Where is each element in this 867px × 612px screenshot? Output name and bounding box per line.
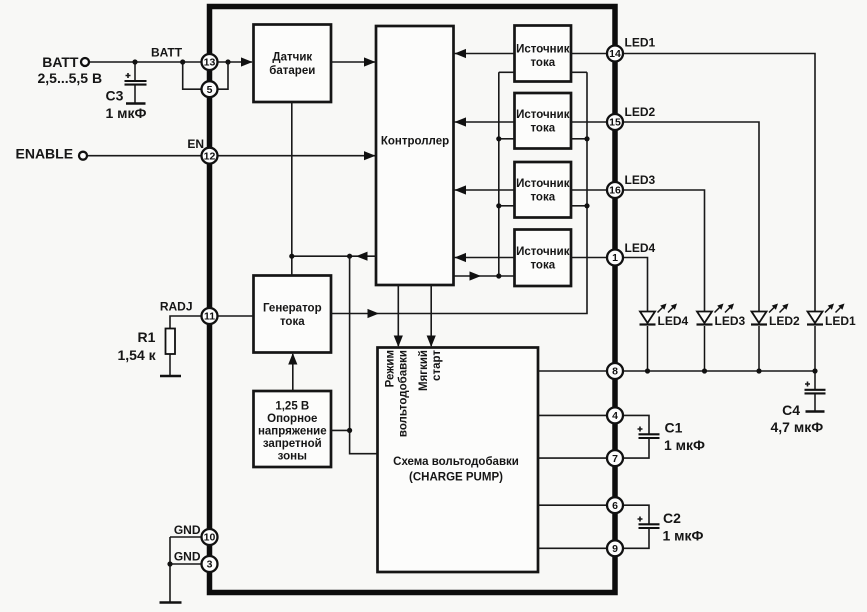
wire top tie left bbox=[499, 71, 515, 73]
wire GND pin3 bbox=[170, 563, 202, 565]
svg-text:напряжение: напряжение bbox=[258, 426, 327, 438]
wire Источник тока 3 to pin16 bbox=[571, 189, 607, 191]
pin 6 bbox=[607, 497, 623, 513]
node BATT/C3 junction bbox=[132, 59, 137, 64]
svg-text:4,7 мкФ: 4,7 мкФ bbox=[771, 419, 824, 435]
terminal ENABLE bbox=[79, 152, 87, 160]
pin 11 bbox=[202, 308, 218, 324]
svg-text:1,25 В: 1,25 В bbox=[275, 401, 309, 413]
label: Режим вольтодобавки (vertical) bbox=[385, 350, 410, 437]
label BATT source bbox=[38, 54, 103, 86]
wire 1,25 В to Генератор тока bbox=[288, 353, 297, 391]
svg-text:Контроллер: Контроллер bbox=[381, 135, 449, 147]
pin 1 bbox=[607, 250, 623, 266]
wire pin15 to LED2 bbox=[623, 122, 759, 311]
wire pin16 to LED3 bbox=[623, 190, 705, 311]
wire stub2 right bbox=[571, 136, 590, 141]
svg-text:R1: R1 bbox=[138, 329, 156, 345]
wire Контроллер to Источник тока 4 lower bbox=[454, 271, 515, 280]
svg-text:1 мкФ: 1 мкФ bbox=[106, 105, 147, 121]
svg-text:BATT: BATT bbox=[42, 54, 79, 70]
label GND pin3 bbox=[174, 550, 201, 564]
wire EN external bbox=[88, 155, 202, 157]
svg-text:1: 1 bbox=[612, 252, 618, 264]
wire left bus bbox=[498, 72, 500, 276]
wire Источник тока 4 to pin1 bbox=[571, 257, 607, 259]
label LED3 pin bbox=[625, 173, 656, 187]
LED LED1 bbox=[807, 304, 856, 372]
block: Источник тока 2 bbox=[515, 93, 572, 149]
wire pin11 to Генератор тока bbox=[218, 315, 254, 317]
svg-text:Источник: Источник bbox=[516, 109, 570, 121]
LED LED3 bbox=[697, 304, 746, 372]
svg-text:LED1: LED1 bbox=[625, 36, 656, 50]
svg-text:RADJ: RADJ bbox=[160, 300, 193, 314]
svg-text:12: 12 bbox=[204, 150, 216, 162]
IC boundary bbox=[210, 7, 616, 593]
svg-text:6: 6 bbox=[612, 500, 618, 512]
wire vertical net to charge pump bbox=[350, 256, 378, 454]
pin 3 bbox=[202, 556, 218, 572]
wire pin5 external loop bbox=[180, 59, 201, 89]
svg-text:C4: C4 bbox=[782, 402, 800, 418]
LED LED2 bbox=[751, 304, 800, 372]
svg-text:Схема вольтодобавки: Схема вольтодобавки bbox=[393, 456, 519, 468]
block: Контроллер U-CTRL bbox=[376, 26, 454, 285]
svg-text:13: 13 bbox=[204, 57, 216, 69]
svg-text:Источник: Источник bbox=[516, 43, 570, 55]
terminal BATT bbox=[81, 58, 89, 66]
svg-text:C2: C2 bbox=[663, 510, 681, 526]
block: 1,25 В опорное напряжение bbox=[254, 391, 332, 467]
capacitor C1 bbox=[623, 415, 660, 458]
wire Источник тока 4 to Контроллер bbox=[454, 253, 515, 262]
svg-text:Датчик: Датчик bbox=[272, 52, 312, 64]
svg-text:тока: тока bbox=[530, 260, 555, 272]
pin 10 bbox=[202, 529, 218, 545]
label R1 bbox=[118, 329, 157, 363]
wire pin14 to LED1 bbox=[623, 54, 815, 312]
wire Источник тока 2 to Контроллер bbox=[454, 117, 515, 126]
wire Источник тока 2 to pin15 bbox=[571, 121, 607, 123]
wire stub3 right bbox=[571, 203, 590, 208]
svg-text:2,5...5,5 В: 2,5...5,5 В bbox=[38, 70, 103, 86]
wire top tie right bbox=[571, 71, 587, 73]
ground R1 bbox=[160, 375, 181, 378]
svg-text:Опорное: Опорное bbox=[267, 413, 317, 425]
capacitor C4 bbox=[805, 371, 826, 411]
svg-text:EN: EN bbox=[187, 137, 204, 151]
svg-text:10: 10 bbox=[204, 532, 216, 544]
block: Источник тока 3 bbox=[515, 162, 572, 218]
wire pin13 to Датчик батареи bbox=[218, 57, 253, 66]
wire 1,25 В output bbox=[331, 428, 352, 433]
svg-text:зоны: зоны bbox=[278, 451, 307, 463]
label ENABLE bbox=[16, 146, 74, 162]
wire Генератор тока output bus bbox=[331, 72, 587, 318]
pin 7 bbox=[607, 450, 623, 466]
capacitor C3 bbox=[125, 62, 147, 103]
svg-text:тока: тока bbox=[530, 57, 555, 69]
svg-text:LED3: LED3 bbox=[625, 173, 656, 187]
svg-text:Генератор: Генератор bbox=[263, 302, 322, 314]
block: Источник тока 1 bbox=[515, 26, 572, 82]
svg-text:14: 14 bbox=[609, 48, 621, 60]
svg-text:тока: тока bbox=[530, 192, 555, 204]
ground C4 bbox=[806, 410, 825, 413]
svg-text:Мягкий: Мягкий bbox=[418, 350, 430, 391]
svg-text:тока: тока bbox=[530, 123, 555, 135]
wire GND pin10 bbox=[170, 536, 202, 538]
svg-text:11: 11 bbox=[204, 311, 215, 323]
svg-text:LED2: LED2 bbox=[769, 314, 800, 328]
pin 5 bbox=[202, 81, 218, 97]
pin 14 bbox=[607, 46, 623, 62]
label LED2 pin bbox=[625, 105, 656, 119]
svg-text:5: 5 bbox=[207, 84, 213, 96]
svg-text:ENABLE: ENABLE bbox=[16, 146, 74, 162]
pin 16 bbox=[607, 182, 623, 198]
capacitor C2 bbox=[623, 505, 660, 548]
svg-text:C1: C1 bbox=[665, 420, 683, 436]
svg-text:16: 16 bbox=[609, 185, 621, 197]
block: Источник тока 4 bbox=[515, 230, 572, 287]
wire charge pump to pin4 bbox=[538, 414, 607, 416]
svg-text:1 мкФ: 1 мкФ bbox=[664, 437, 705, 453]
pin 13 bbox=[202, 54, 218, 70]
wire Датчик батареи to Контроллер bbox=[331, 57, 376, 66]
svg-text:9: 9 bbox=[612, 543, 618, 555]
block: Схема вольтодобавки (CHARGE PUMP) bbox=[378, 348, 539, 573]
label LED4 pin bbox=[625, 241, 656, 255]
wire EN internal to Контроллер bbox=[218, 151, 376, 160]
wire GND vertical bbox=[167, 537, 172, 602]
pin 9 bbox=[607, 540, 623, 556]
label GND pin10 bbox=[174, 523, 201, 537]
svg-text:LED4: LED4 bbox=[658, 314, 689, 328]
wire stub2 left bbox=[496, 136, 514, 141]
wire charge pump to pin7 bbox=[538, 457, 607, 459]
svg-text:вольтодобавки: вольтодобавки bbox=[398, 350, 410, 437]
wire Контроллер left output bbox=[289, 252, 376, 261]
label: Мягкий старт (vertical) bbox=[418, 350, 443, 391]
svg-text:старт: старт bbox=[431, 350, 443, 381]
wire Датчик батареи down to Генератор тока bbox=[291, 102, 293, 276]
svg-text:батареи: батареи bbox=[269, 65, 315, 77]
pin 15 bbox=[607, 114, 623, 130]
svg-text:GND: GND bbox=[174, 550, 201, 564]
wire charge pump to pin6 bbox=[538, 504, 607, 506]
ground C3 bbox=[126, 102, 146, 105]
svg-text:Источник: Источник bbox=[516, 246, 570, 258]
svg-text:запретной: запретной bbox=[263, 438, 322, 450]
svg-text:(CHARGE PUMP): (CHARGE PUMP) bbox=[409, 472, 503, 484]
label RADJ net bbox=[160, 300, 193, 314]
wire charge pump to pin9 bbox=[538, 547, 607, 549]
block: Датчик батареи bbox=[254, 25, 332, 103]
wire pin8 common rail bbox=[623, 368, 818, 373]
label C2 bbox=[663, 510, 704, 544]
ground GND bbox=[160, 601, 182, 604]
wire pin5 internal loop bbox=[218, 62, 229, 89]
svg-text:15: 15 bbox=[609, 117, 621, 129]
LED LED4 bbox=[640, 304, 689, 372]
svg-text:GND: GND bbox=[174, 523, 201, 537]
resistor R1 bbox=[166, 329, 176, 376]
wire BATT external bbox=[90, 61, 202, 63]
pin 4 bbox=[607, 407, 623, 423]
block: Генератор тока bbox=[254, 276, 332, 353]
wire Источник тока 1 to Контроллер bbox=[454, 49, 515, 58]
wire Контроллер to charge pump (Мягкий старт) bbox=[427, 285, 436, 347]
svg-text:LED3: LED3 bbox=[715, 314, 746, 328]
svg-text:тока: тока bbox=[280, 316, 305, 328]
svg-text:LED2: LED2 bbox=[625, 105, 656, 119]
label EN net bbox=[187, 137, 204, 151]
label LED1 pin bbox=[625, 36, 656, 50]
pin 8 bbox=[607, 363, 623, 379]
svg-text:1,54 к: 1,54 к bbox=[118, 347, 157, 363]
svg-text:Источник: Источник bbox=[516, 178, 570, 190]
svg-text:Режим: Режим bbox=[385, 350, 397, 387]
wire RADJ external bbox=[170, 316, 202, 329]
svg-text:C3: C3 bbox=[106, 88, 124, 104]
label C3 bbox=[106, 88, 147, 122]
svg-text:8: 8 bbox=[612, 366, 618, 378]
svg-text:7: 7 bbox=[612, 453, 618, 465]
wire charge pump to pin8 bbox=[538, 370, 607, 372]
wire Источник тока 1 to pin14 bbox=[571, 53, 607, 55]
pin 12 bbox=[202, 148, 218, 164]
label C4 bbox=[771, 402, 824, 435]
label C1 bbox=[664, 420, 705, 454]
svg-text:3: 3 bbox=[207, 559, 213, 571]
svg-text:LED1: LED1 bbox=[825, 314, 856, 328]
wire stub3 left bbox=[496, 203, 514, 208]
svg-text:BATT: BATT bbox=[151, 46, 183, 60]
svg-text:LED4: LED4 bbox=[625, 241, 656, 255]
svg-text:1 мкФ: 1 мкФ bbox=[663, 528, 704, 544]
wire Источник тока 3 to Контроллер bbox=[454, 185, 515, 194]
label BATT net bbox=[151, 46, 183, 60]
svg-text:4: 4 bbox=[612, 410, 618, 422]
wire pin1 to LED4 bbox=[623, 258, 648, 312]
wire Контроллер to charge pump (Режим) bbox=[394, 285, 403, 347]
